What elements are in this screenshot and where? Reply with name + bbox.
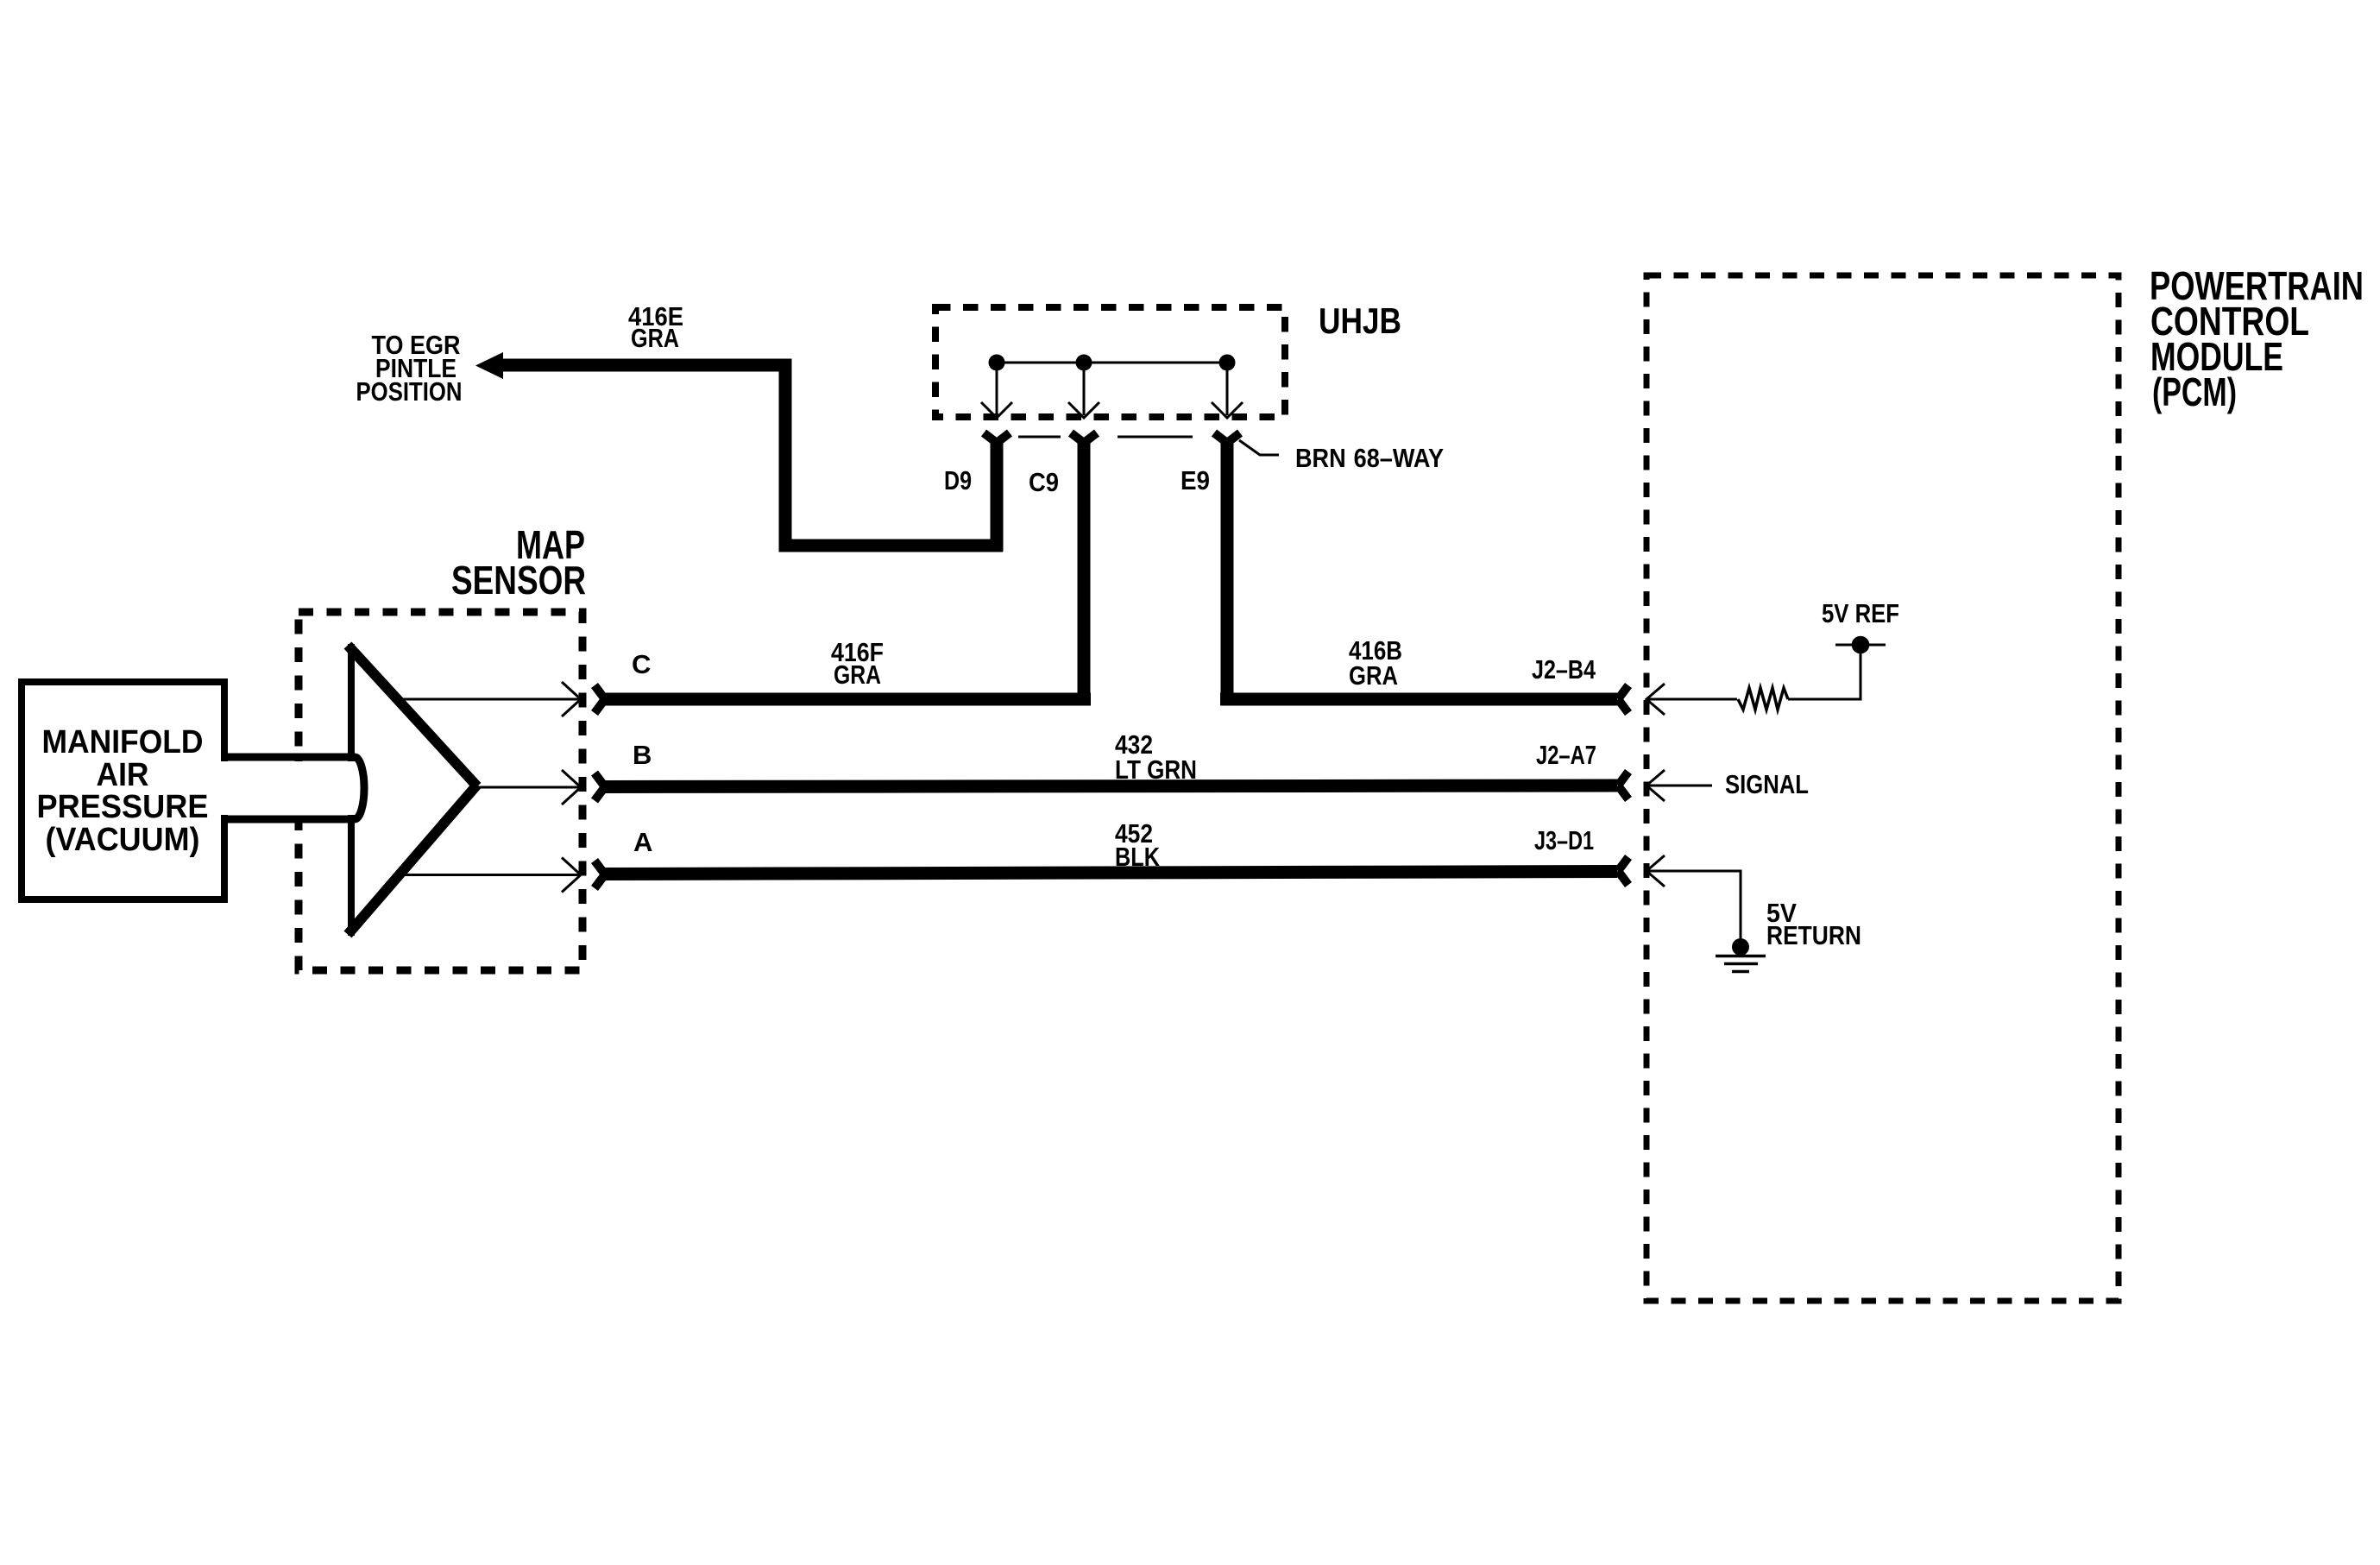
5V REF terminal dot <box>1852 636 1870 654</box>
sensor triangle left edge <box>348 644 355 936</box>
sensor triangle upper side <box>348 646 477 787</box>
connector fork, wire A at PCM <box>1618 857 1628 885</box>
connector fork C9 <box>1071 433 1097 444</box>
connector strip line C9-E9 <box>1118 436 1193 439</box>
svg-text:LT GRN: LT GRN <box>1115 754 1197 785</box>
wire 416F GRA segment (C to C9) <box>604 693 1091 706</box>
internal line to ground <box>1646 871 1741 947</box>
label 5V RETURN <box>1766 898 1861 950</box>
MAP SENSOR dashed box <box>299 612 582 970</box>
drop arrowhead C9 <box>1068 402 1099 418</box>
ground symbol <box>1716 956 1766 972</box>
junction dot D9 <box>989 355 1005 371</box>
svg-text:AIR: AIR <box>97 757 149 793</box>
arrow at MAP box edge, pin A <box>562 858 581 893</box>
svg-text:BRN 68–WAY: BRN 68–WAY <box>1295 443 1444 473</box>
connector fork D9 (below UHJB) <box>984 433 1010 444</box>
label POWERTRAIN CONTROL MODULE (PCM) <box>2150 263 2364 414</box>
wire 452 BLK <box>604 872 1617 874</box>
drop arrowhead D9 <box>981 402 1012 418</box>
label 416B GRA <box>1349 635 1402 691</box>
splice bus line inside UHJB <box>997 362 1227 364</box>
svg-text:POSITION: POSITION <box>356 376 463 407</box>
svg-text:J2–A7: J2–A7 <box>1536 740 1596 770</box>
connector fork, wire C at PCM <box>1618 685 1628 713</box>
svg-text:PRESSURE: PRESSURE <box>37 789 209 825</box>
svg-text:SIGNAL: SIGNAL <box>1725 769 1809 799</box>
connector fork, wire C at MAP <box>595 685 605 713</box>
junction dot C9 <box>1076 355 1092 371</box>
svg-text:GRA: GRA <box>1349 660 1398 691</box>
5V REF terminal tick <box>1835 644 1886 647</box>
UHJB dashed box <box>935 307 1285 417</box>
sensor output line A (thin) <box>403 874 580 876</box>
label 452 BLK <box>1115 818 1160 872</box>
drop line from dot D9 <box>996 363 998 415</box>
riser wire D9 <box>991 439 1004 552</box>
wire 416E GRA (D9 to EGR) <box>503 365 1003 546</box>
PCM input arrow, pin J2-A7 <box>1646 770 1665 801</box>
svg-text:GRA: GRA <box>834 659 881 690</box>
drop arrowhead E9 <box>1212 402 1243 418</box>
resistor R (5V REF pull-up) <box>1738 688 1788 710</box>
connector strip line D9-C9 <box>1018 436 1061 439</box>
internal line resistor to 5V REF <box>1788 645 1861 699</box>
svg-text:MANIFOLD: MANIFOLD <box>42 724 204 760</box>
connector fork, wire B at MAP <box>595 773 605 801</box>
connector fork E9 <box>1214 433 1240 444</box>
arrow at MAP box edge, pin B <box>562 770 581 805</box>
svg-text:C: C <box>632 649 651 679</box>
drop line from dot E9 <box>1226 363 1229 415</box>
svg-text:(PCM): (PCM) <box>2152 369 2237 414</box>
svg-text:J2–B4: J2–B4 <box>1532 654 1596 685</box>
drop line from dot C9 <box>1083 363 1086 415</box>
svg-text:(VACUUM): (VACUUM) <box>46 822 200 858</box>
sensor output line C (thin) <box>397 698 580 701</box>
svg-text:C9: C9 <box>1029 467 1059 497</box>
wire 416B GRA segment (E9 to PCM) <box>1220 693 1617 706</box>
PCM input arrow, pin J2-B4 <box>1646 684 1665 715</box>
riser wire E9 <box>1221 439 1234 705</box>
label TO EGR PINTLE POSITION <box>356 330 463 407</box>
wire 432 LT GRN <box>604 786 1617 787</box>
internal line to resistor <box>1646 698 1737 701</box>
sensor output line B (thin) <box>477 786 580 789</box>
vacuum tube interior (white) <box>217 761 356 815</box>
svg-text:GRA: GRA <box>631 323 679 353</box>
svg-text:D9: D9 <box>944 465 972 495</box>
MAP SENSOR label <box>451 522 586 603</box>
PCM input arrow, pin J3-D1 <box>1646 855 1665 887</box>
svg-text:UHJB: UHJB <box>1319 300 1401 341</box>
connector fork, wire A at MAP <box>595 861 605 888</box>
connector fork, wire B at PCM <box>1618 772 1628 799</box>
MANIFOLD AIR PRESSURE (VACUUM) source box <box>22 682 224 899</box>
svg-text:RETURN: RETURN <box>1766 920 1861 950</box>
svg-text:5V REF: 5V REF <box>1822 598 1899 628</box>
POWERTRAIN CONTROL MODULE (PCM) dashed box <box>1646 275 2119 1301</box>
label 432 LT GRN <box>1115 729 1197 785</box>
arrow at MAP box edge, pin C <box>562 682 581 716</box>
ground dot <box>1732 938 1749 956</box>
svg-text:J3–D1: J3–D1 <box>1534 825 1594 855</box>
vacuum tube lower wall <box>223 816 355 824</box>
vacuum tube upper wall <box>223 754 355 761</box>
svg-text:SENSOR: SENSOR <box>451 558 586 603</box>
junction dot E9 <box>1219 355 1236 371</box>
label 416F GRA <box>831 637 884 690</box>
vacuum tube end cap <box>355 757 364 819</box>
svg-text:A: A <box>633 827 652 857</box>
svg-text:B: B <box>633 740 652 770</box>
svg-text:E9: E9 <box>1181 465 1210 495</box>
sensor triangle lower side <box>348 785 477 935</box>
label 416E GRA <box>628 301 683 353</box>
svg-text:BLK: BLK <box>1115 842 1160 872</box>
arrowhead to EGR pintle position <box>475 352 503 379</box>
riser wire C9 <box>1078 439 1091 705</box>
leader line BRN 68-WAY <box>1239 440 1279 455</box>
internal signal line <box>1646 785 1712 787</box>
